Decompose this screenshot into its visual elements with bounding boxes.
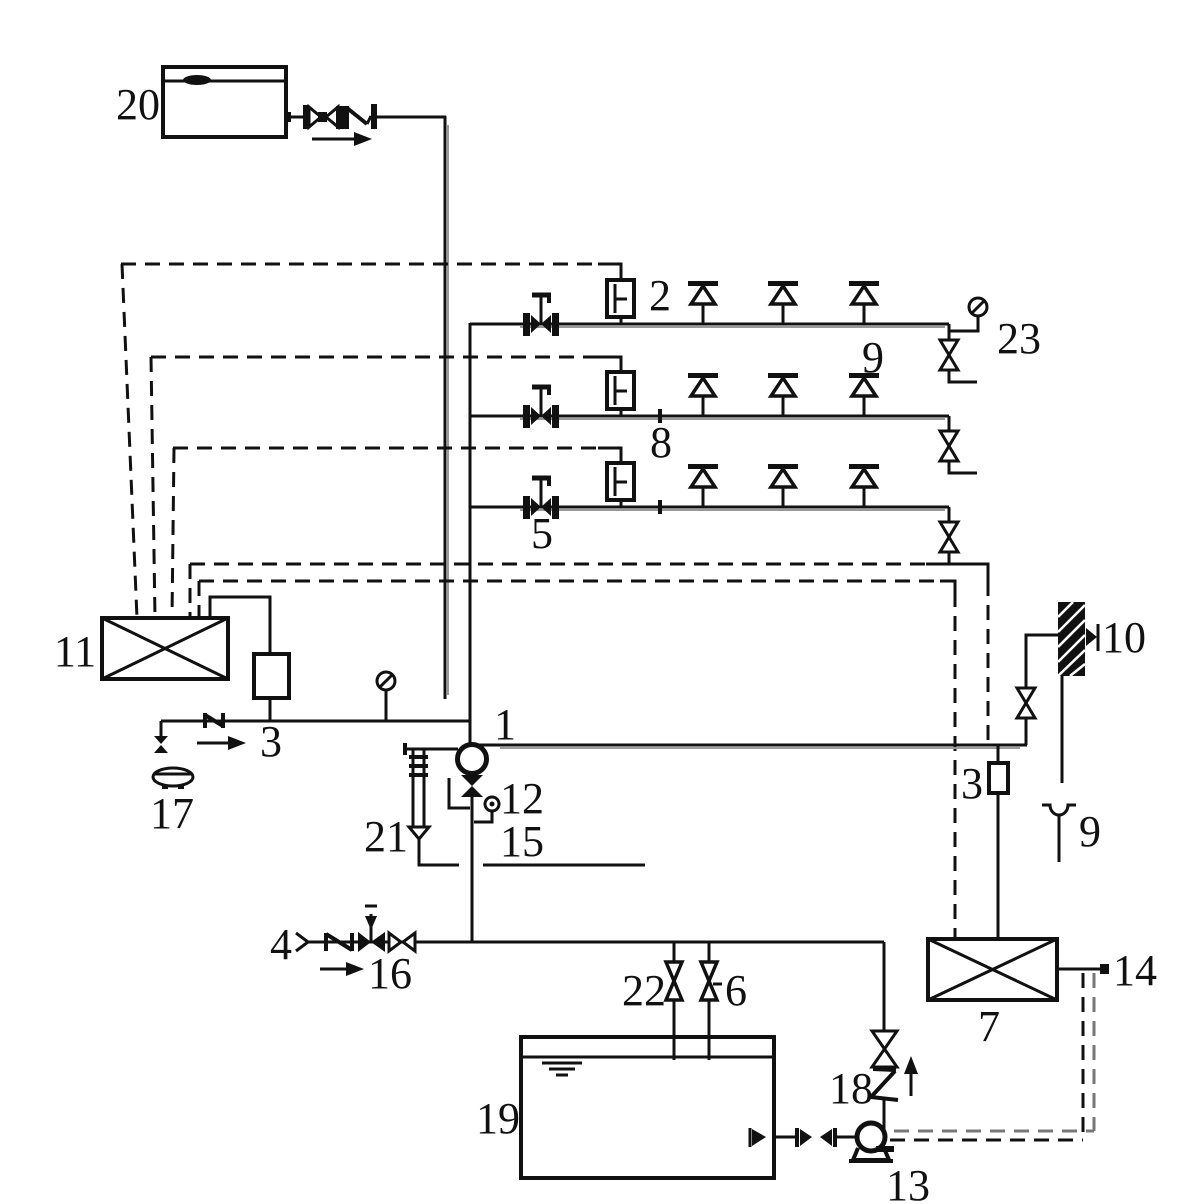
flex connector on suction pipe [205,713,223,728]
svg-text:8: 8 [650,418,672,467]
branch down to filter 3b [997,745,1000,763]
svg-text:7: 7 [978,1002,1000,1051]
suction pipe from expansion device [161,720,470,723]
bypass bracket at valve 12 [449,778,470,808]
check element with zigzag at tank 20 outlet [347,104,377,129]
svg-text:4: 4 [270,920,292,969]
branch valve 5 row 1 [523,295,559,336]
water tank 19 [521,1037,774,1178]
main pipe 1 to right [472,745,1027,748]
branch valve row 2 [523,387,559,428]
controller 11 [102,618,228,679]
funnel 9 right [1042,805,1076,862]
drain valve row 3 [940,522,958,552]
drain valve row 2 [940,431,958,461]
drain header line 15 [483,864,645,867]
sprinkler row 2 c [849,373,879,416]
valve 12 under pump 1 [461,775,483,797]
flowmeter 2 [607,280,634,324]
expansion vessel 17 [153,768,193,787]
svg-text:9: 9 [1079,807,1101,856]
svg-text:10: 10 [1102,613,1146,662]
flowmeter row 3 [607,463,634,507]
wire tank 20 outlet [286,116,304,119]
flow arrow on suction pipe [197,736,246,750]
svg-text:15: 15 [500,817,544,866]
svg-text:6: 6 [725,966,747,1015]
inlet 4 cap [296,933,308,951]
filter 3b [989,763,1008,793]
dashed return line outer [890,973,1083,1140]
wire suction valve to pump 13 [835,1136,858,1139]
flowmeter row 2 [607,372,634,416]
branch valve row 3 [523,478,559,519]
svg-text:5: 5 [531,509,553,558]
device 3a small box [254,654,289,698]
junction tick 8 row 2 [658,409,662,423]
dashed return line inner [894,973,1094,1131]
valve 18 [871,1031,898,1100]
sprinkler row 3 a [688,464,718,507]
funnel drain 21 [409,827,429,839]
sprinkler row 3 c [849,464,879,507]
dashed control line D3 to flowmeter row 3 [172,448,621,618]
svg-text:11: 11 [54,627,96,676]
drain line 21 double pipe [409,749,428,827]
flow arrow below tank 20 valve [312,132,372,146]
wire tank 19 to suction valve [774,1136,797,1139]
riser main pipe [469,323,472,745]
branch pipe row 1 [470,324,949,327]
svg-text:2: 2 [649,271,671,320]
tank 20 [163,67,286,137]
svg-text:18: 18 [829,1064,873,1113]
flow arrow up at valve 18 [904,1056,918,1096]
wire funnel 21 to drain header [419,839,459,865]
svg-text:23: 23 [997,314,1041,363]
heat exchanger 7 [928,939,1057,1000]
outdoor unit 10 hatched block [1058,602,1085,676]
svg-text:3: 3 [260,717,282,766]
sprinkler row 2 b [768,373,798,416]
wire row 1 drain outlet [949,370,977,382]
wire row 2 drain outlet [949,461,977,473]
wire fill pipe right corner down [883,942,886,1031]
flex connector on fill pipe [326,933,352,951]
svg-text:9: 9 [862,333,884,382]
wire tank 20 to riser corner [377,116,446,119]
check valve after 16 [389,933,415,951]
wire main pipe right corner up [1025,718,1028,745]
svg-text:20: 20 [116,80,160,129]
wire row 3 drain to D4 [948,552,951,565]
sensor 15 [474,797,499,822]
dashed control line D2 to flowmeter row 2 [151,357,621,618]
svg-text:17: 17 [150,789,194,838]
svg-text:3: 3 [961,759,983,808]
sprinkler row 1 b [768,281,798,324]
branch pipe row 2 [470,416,949,419]
svg-text:13: 13 [886,1161,930,1204]
svg-text:22: 22 [622,966,666,1015]
pressure reducing valve 16 [358,906,385,952]
label 6 [713,966,747,1015]
wire pump suction stub left [405,743,458,755]
valve 6 [701,942,717,1060]
pump 1 [458,745,487,774]
sprinkler row 2 a [688,373,718,416]
valve at tank 20 outlet [303,105,349,129]
wire row 3 right corner down [948,507,951,523]
sprinkler row 1 a [688,281,718,324]
svg-text:14: 14 [1113,946,1157,995]
sprinkler row 1 c [849,281,879,324]
pump 13 [849,1123,893,1161]
wire row 2 right corner down [948,416,951,432]
wire controller 11 to device 3a [210,597,270,654]
wire row 1 right corner down [948,324,951,341]
dashed control line D5 to heat exchanger 7 [199,581,955,939]
wire suction pipe left end down [160,721,163,736]
wire heat exchanger 7 outlet 14 [1057,964,1109,974]
wire riser below valve 12 [471,796,474,942]
wire filter 3b to heat exchanger 7 [997,793,1000,939]
valve 22 [666,942,682,1060]
flow arrow at inlet 16 [320,962,364,976]
junction tick row 3 [658,500,662,514]
svg-text:21: 21 [364,812,408,861]
wire device 3a to suction pipe [269,698,272,721]
svg-text:12: 12 [500,774,544,823]
riser from tank 20 down [444,116,447,699]
wire valve 18 to pump 13 [883,1100,886,1130]
small valve above expansion vessel 17 [154,736,168,753]
outlet symbol inside tank 19 [750,1128,766,1147]
pressure gauge 23 [950,298,987,331]
wire valve to outdoor unit 10 [1026,635,1058,688]
water level mark tank 19 [542,1063,582,1075]
pressure gauge on suction pipe [377,672,395,721]
drain valve row 1 [940,340,958,370]
air outlet symbol at unit 10 [1086,624,1098,651]
fill pipe bottom [308,941,884,944]
svg-text:19: 19 [476,1094,520,1143]
dashed control line D1 to flowmeter 2 [121,264,621,618]
sprinkler row 3 b [768,464,798,507]
svg-text:16: 16 [368,949,412,998]
outdoor drop tube from unit 10 [1061,676,1064,783]
branch pipe row 3 [470,507,949,510]
valve below outdoor unit 10 [1017,688,1035,718]
suction valve before pump 13 [797,1128,835,1147]
stub end of dashed return at pump 13 [876,1146,894,1152]
svg-text:1: 1 [494,700,516,749]
dashed control line D4 [190,564,988,744]
